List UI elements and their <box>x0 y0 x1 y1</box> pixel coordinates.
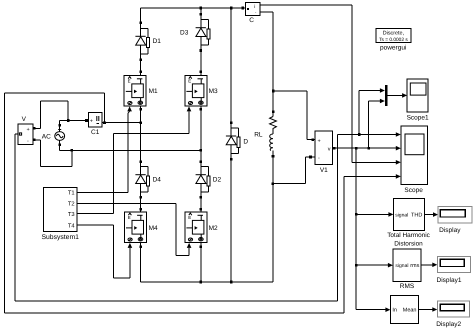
svg-text:V1: V1 <box>320 167 328 174</box>
scope Scope <box>401 126 428 194</box>
wire: RL bottom drop to bus <box>271 155 274 282</box>
svg-text:+: + <box>318 138 321 144</box>
wire: THD output to Display <box>424 212 438 217</box>
wire: THD input <box>356 212 393 217</box>
wire: scope input 1 line <box>338 132 401 137</box>
wire: measurement feed column to THD RMS Mean <box>355 148 358 310</box>
wire: current measurement signal to scope input 3 <box>260 5 401 165</box>
wire: right leg middle (M3 source to D2 to M2 drain) <box>200 106 203 212</box>
wire: V1 minus input from RL bottom <box>273 156 315 184</box>
series RLC branch C1 <box>88 113 102 136</box>
svg-text:T1: T1 <box>68 190 75 196</box>
svg-text:T3: T3 <box>68 211 75 218</box>
svg-text:T4: T4 <box>68 223 76 229</box>
svg-text:D4: D4 <box>153 177 162 184</box>
svg-text:RL: RL <box>254 131 263 138</box>
wire: left outer loop from C1 node to scope input 4 <box>5 93 345 313</box>
svg-text:+: + <box>90 118 93 124</box>
voltage measurement V <box>18 116 33 145</box>
THD block <box>387 199 430 248</box>
wire: T3 gate line to M3 <box>77 106 191 213</box>
svg-text:Discrete,: Discrete, <box>383 30 405 36</box>
svg-text:-: - <box>27 139 29 145</box>
wire: C1 output to left leg midpoint <box>102 121 141 124</box>
svg-text:T2: T2 <box>68 201 75 208</box>
MOSFET M4 <box>124 212 158 243</box>
wire: scope input 4 line <box>344 174 401 179</box>
wire: M4 source drop <box>139 243 142 282</box>
Mean block <box>390 296 418 324</box>
svg-text:Total Harmonic: Total Harmonic <box>387 232 430 239</box>
svg-text:Display1: Display1 <box>437 277 462 284</box>
svg-text:D3: D3 <box>180 29 189 36</box>
wire: mux output to Scope1 <box>387 93 407 98</box>
svg-text:Scope1: Scope1 <box>407 114 429 121</box>
diode D2 <box>196 167 222 193</box>
svg-text:AC: AC <box>42 134 51 141</box>
wire: right leg top (rail to D3 to M3 drain) <box>200 8 203 76</box>
powergui block <box>376 28 411 51</box>
svg-text:D2: D2 <box>213 177 222 184</box>
svg-text:V: V <box>22 116 27 123</box>
svg-text:M1: M1 <box>149 88 158 95</box>
mux for Scope1 <box>385 85 388 106</box>
Display block <box>438 207 472 235</box>
wire: freewheeling diode branch <box>230 8 233 282</box>
wire: V measurement output to scope input 1 <box>15 134 337 301</box>
wire: C block circuit out down to RL top node <box>260 12 275 113</box>
svg-text:In: In <box>392 308 397 314</box>
wire: AC bottom return to right leg midpoint <box>58 141 201 152</box>
Display2 block <box>436 301 469 328</box>
wire: left leg middle (M1 source to D4 to M4 drain) <box>139 106 142 212</box>
svg-text:+: + <box>27 127 30 133</box>
svg-text:C1: C1 <box>91 129 100 136</box>
AC source <box>42 130 65 141</box>
svg-text:Display2: Display2 <box>436 321 461 328</box>
svg-text:M4: M4 <box>149 225 158 232</box>
current measurement C <box>245 2 259 24</box>
svg-text:Scope: Scope <box>404 187 423 194</box>
wire: M2 source drop <box>200 243 203 282</box>
wire: left leg top (rail to D1 to M1 drain) <box>139 8 142 76</box>
wire: V minus loop to AC bottom node <box>33 139 72 167</box>
svg-text:powergui: powergui <box>380 44 406 51</box>
svg-text:signal: signal <box>395 263 408 269</box>
svg-text:M3: M3 <box>209 88 218 95</box>
wire: mux input 1 branch <box>359 88 385 134</box>
svg-text:C: C <box>249 17 254 24</box>
wire: RMS output to Display1 <box>421 263 437 268</box>
diode D1 <box>135 28 161 54</box>
wire: AC top to C1 input <box>58 119 87 131</box>
svg-text:Mean: Mean <box>403 308 417 314</box>
svg-text:v: v <box>328 146 331 152</box>
svg-text:rms: rms <box>410 263 419 269</box>
series RLC load RL <box>254 112 276 156</box>
svg-text:signal: signal <box>395 213 408 219</box>
svg-text:D1: D1 <box>153 38 162 45</box>
wire: mux input 2 branch <box>369 99 385 149</box>
wire: bottom return bus <box>141 281 273 284</box>
RMS block <box>393 249 421 290</box>
MOSFET M3 <box>185 76 218 107</box>
wire: V plus loop to AC top node <box>33 101 68 129</box>
scope Scope1 <box>407 79 429 121</box>
svg-text:Subsystem1: Subsystem1 <box>41 234 79 241</box>
wire: Mean output to Display2 <box>418 307 437 312</box>
wire: T4 gate line to M4 <box>77 225 132 278</box>
wire: T1 gate line to M1 <box>77 106 132 192</box>
MOSFET M2 <box>185 212 218 243</box>
diode D3 <box>180 20 210 46</box>
svg-text:THD: THD <box>411 213 422 219</box>
diode D4 <box>135 167 161 193</box>
wire: node to V1 plus input <box>273 91 315 141</box>
svg-text:D: D <box>243 138 248 145</box>
freewheeling diode D <box>226 128 249 154</box>
voltage measurement V1 <box>315 131 333 174</box>
subsystem Subsystem1 <box>41 187 79 241</box>
svg-text:Display: Display <box>439 227 461 234</box>
svg-text:-: - <box>318 156 320 162</box>
wire: V1 output line to scope input 2 <box>333 146 401 151</box>
Display1 block <box>437 257 471 284</box>
svg-text:Distorsion: Distorsion <box>394 240 423 247</box>
svg-text:Ts = 0.0002 s: Ts = 0.0002 s <box>379 37 408 43</box>
svg-text:RMS: RMS <box>400 283 415 290</box>
wire: Mean input <box>356 307 390 312</box>
wire: top DC rail <box>141 7 246 10</box>
wire: RMS input <box>356 263 393 268</box>
wire: T2 gate line to M2 <box>77 203 191 255</box>
svg-text:M2: M2 <box>209 225 218 232</box>
MOSFET M1 <box>124 76 158 107</box>
